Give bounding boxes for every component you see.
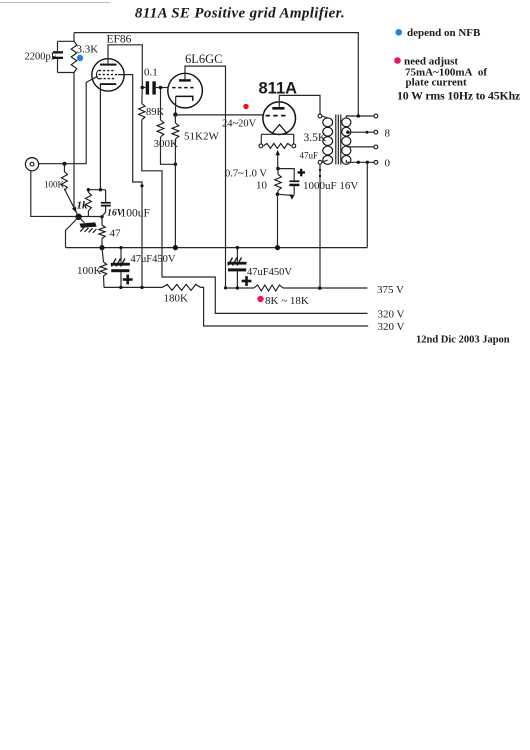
svg-text:811A SE Positive grid Amplifie: 811A SE Positive grid Amplifier. bbox=[135, 6, 345, 22]
transformer OPT primary 3.5K bbox=[304, 116, 333, 164]
capacitor 47uF450V left bbox=[111, 248, 176, 288]
transformer core bbox=[336, 115, 341, 165]
node cap / 300K junction bbox=[159, 86, 163, 90]
resistor 89K bbox=[139, 88, 165, 120]
wire bracket bottom of C-R network bbox=[58, 72, 75, 74]
node cathode / bypass bbox=[99, 188, 102, 191]
capacitor 100uF 16V bbox=[101, 190, 150, 220]
wire 10 ohm to common rail bbox=[277, 194, 279, 247]
svg-text:89K: 89K bbox=[146, 107, 165, 118]
capacitor 0.1 bbox=[144, 67, 158, 95]
wire EF86 g2 line down bbox=[118, 75, 142, 288]
svg-text:0.7~1.0 V: 0.7~1.0 V bbox=[225, 169, 267, 180]
node on B+ lead 2 bbox=[319, 175, 321, 177]
svg-text:10: 10 bbox=[256, 180, 268, 192]
svg-text:47: 47 bbox=[110, 228, 122, 240]
node rail right cap bbox=[236, 246, 239, 249]
wire 811A plate to OPT primary bbox=[279, 95, 320, 114]
wire pot wiper with arrow bbox=[276, 150, 280, 169]
node on g2 line bbox=[140, 184, 143, 187]
svg-text:375 V: 375 V bbox=[377, 284, 404, 296]
svg-text:100K: 100K bbox=[77, 265, 102, 277]
svg-text:47uF: 47uF bbox=[300, 151, 319, 161]
svg-text:6L6GC: 6L6GC bbox=[185, 52, 223, 66]
wire OPT primary bottom to B+ 375V bbox=[319, 164, 321, 288]
wire NFB to input network bbox=[73, 73, 75, 208]
svg-text:47uF450V: 47uF450V bbox=[131, 254, 176, 265]
svg-text:0.1: 0.1 bbox=[144, 67, 158, 79]
wire 6L6GC cathode lead bbox=[175, 96, 177, 114]
svg-text:3.3K: 3.3K bbox=[77, 44, 99, 56]
svg-text:320 V: 320 V bbox=[378, 309, 405, 321]
wire cathode bus bbox=[88, 189, 105, 191]
resistor 1k cathode pot bbox=[77, 190, 92, 217]
wire secondary mid tap bbox=[347, 146, 374, 148]
svg-text:3.5K: 3.5K bbox=[304, 132, 327, 144]
resistor 51K2W bbox=[172, 115, 219, 248]
jack input bbox=[25, 158, 38, 171]
resistor 3.3K bbox=[71, 41, 98, 72]
node 100K top bbox=[63, 162, 67, 166]
resistor 100K lower bbox=[77, 248, 107, 288]
node 375V / cap bbox=[236, 286, 239, 289]
wire lower bus bbox=[104, 286, 163, 288]
node 1k top bbox=[87, 188, 90, 191]
resistor 10 bbox=[256, 169, 281, 195]
wire B+ 375V line bbox=[226, 287, 255, 289]
faint page artifact line bbox=[0, 2, 110, 4]
tube EF86 bbox=[92, 34, 132, 92]
wire bracket top of C-R network bbox=[58, 40, 75, 42]
node 0 tap corner bbox=[366, 161, 369, 164]
wire jack shield bbox=[31, 171, 102, 217]
node 300K / 51K junction bbox=[174, 163, 178, 167]
wire ground node to rail bbox=[66, 217, 79, 248]
svg-text:47uF450V: 47uF450V bbox=[247, 267, 292, 278]
wire 180K to 320V bottom line bbox=[201, 287, 369, 326]
wire NFB top rail bbox=[74, 33, 358, 116]
svg-text:1k: 1k bbox=[77, 200, 89, 212]
svg-text:100K: 100K bbox=[44, 180, 65, 190]
svg-text:plate current: plate current bbox=[406, 77, 468, 89]
node blue: depend on NFB marker bbox=[77, 55, 83, 61]
svg-text:10 W rms 10Hz to 45Khz: 10 W rms 10Hz to 45Khz bbox=[397, 89, 520, 103]
wire 89K to 320V screen feed bbox=[142, 120, 368, 314]
terminal 8 ohm bbox=[374, 130, 378, 134]
svg-text:320 V: 320 V bbox=[378, 321, 405, 333]
ground bbox=[79, 217, 97, 233]
node rail 47 ohm bbox=[99, 245, 104, 250]
wire 375V line right bbox=[283, 287, 368, 289]
svg-text:EF86: EF86 bbox=[107, 34, 132, 46]
capacitor 1000uF 16V bbox=[278, 169, 359, 200]
node rail 10 ohm bbox=[275, 245, 280, 250]
node 0 tap bbox=[357, 161, 360, 164]
tube 6L6GC bbox=[168, 52, 223, 108]
svg-text:811A: 811A bbox=[259, 80, 298, 98]
wire cathode follower to 811A grid (24~20V) bbox=[175, 114, 263, 116]
svg-text:12nd Dic 2003 Japon: 12nd Dic 2003 Japon bbox=[416, 335, 510, 346]
node rail 51K bbox=[173, 245, 178, 250]
node 6L6GC cathode bbox=[173, 112, 177, 116]
capacitor 47uF450V right bbox=[228, 248, 293, 288]
node on 8 tap line bbox=[366, 131, 369, 134]
node wiper junction bbox=[276, 167, 280, 171]
svg-text:2200pF: 2200pF bbox=[25, 52, 57, 63]
tube 811A bbox=[259, 80, 298, 135]
node rail 47uF bbox=[119, 246, 122, 249]
legend blue dot bbox=[395, 29, 402, 36]
wire secondary 0 tap bbox=[346, 160, 374, 162]
wire EF86 cathode lead bbox=[99, 84, 101, 190]
wire secondary top tap bbox=[346, 116, 374, 118]
node red: plate current adjust marker bbox=[243, 104, 248, 109]
wire NFB stub bbox=[73, 33, 75, 42]
svg-text:1000uF 16V: 1000uF 16V bbox=[303, 180, 358, 192]
node 8 ohm tap bbox=[346, 131, 349, 134]
node on B+ lead bbox=[319, 169, 321, 171]
transformer OPT secondary bbox=[342, 118, 351, 164]
terminal 0 ohm bbox=[374, 160, 378, 164]
resistor 300K bbox=[154, 88, 179, 165]
wire 100K to ground node with arrow bbox=[64, 189, 78, 217]
wire EF86 plate to 0.1 cap bbox=[108, 45, 142, 88]
node NFB takeoff bbox=[357, 114, 361, 118]
resistor 8K ~ 18K bbox=[254, 285, 309, 307]
svg-text:300K: 300K bbox=[154, 138, 179, 150]
terminal OPT primary bottom bbox=[318, 160, 322, 164]
wire 0 tap to common rail bbox=[366, 162, 368, 247]
node 10 ohm bottom bbox=[276, 192, 280, 196]
resistor 100K input bbox=[44, 164, 67, 191]
potentiometer hum balance bbox=[259, 134, 296, 148]
node main ground junction bbox=[75, 214, 81, 220]
wire cap left lead bbox=[142, 87, 145, 89]
wire jack hot to EF86 grid bbox=[39, 76, 98, 164]
terminal top tap bbox=[374, 114, 378, 118]
node lower bus g2line bbox=[140, 286, 143, 289]
terminal mid tap bbox=[374, 145, 378, 149]
terminal OPT primary top bbox=[318, 114, 322, 118]
svg-text:100uF: 100uF bbox=[121, 208, 150, 220]
capacitor 2200pF bbox=[25, 41, 64, 72]
wire common rail bbox=[66, 247, 368, 249]
legend magenta dot bbox=[394, 57, 401, 64]
wire secondary 8 ohm tap bbox=[348, 131, 374, 133]
node 47 ohm top bbox=[100, 215, 103, 218]
resistor 180K bbox=[163, 284, 201, 304]
resistor 47 bbox=[99, 217, 121, 248]
svg-text:0: 0 bbox=[385, 158, 391, 170]
wire cap 0.1 to 6L6GC grid bbox=[156, 87, 168, 89]
svg-text:depend on NFB: depend on NFB bbox=[407, 27, 481, 39]
node 375V / 6L6 plate bbox=[224, 286, 227, 289]
node 375V / OPT bbox=[318, 286, 322, 290]
svg-text:51K2W: 51K2W bbox=[184, 131, 219, 143]
node EF86 plate / cap bbox=[141, 86, 145, 90]
svg-text:8K ~ 18K: 8K ~ 18K bbox=[265, 295, 309, 307]
svg-text:24~20V: 24~20V bbox=[222, 119, 257, 130]
svg-text:180K: 180K bbox=[164, 293, 189, 305]
svg-text:8: 8 bbox=[385, 128, 391, 140]
node magenta: 8K adjust marker bbox=[257, 296, 263, 302]
wire 6L6GC plate to B+ 375V bbox=[185, 66, 226, 288]
node lower bus cap bbox=[119, 286, 122, 289]
